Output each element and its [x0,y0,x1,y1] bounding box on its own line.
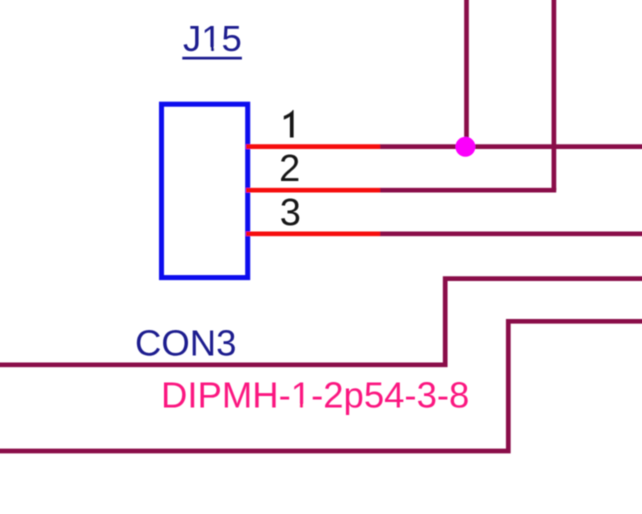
pin 1 number [284,110,294,138]
wire pin1 horizontal to right edge [380,144,642,149]
white patch removing serif foot of 1 in value label (left side) [293,404,300,408]
wire C stepped net (lower-left to upper-right) [0,279,642,365]
white patch removing serif foot of 1 in value label (right side) [303,404,310,408]
svg-text:CON3: CON3 [135,323,236,364]
underline of label J15 [182,57,242,60]
connector J15 body [162,104,248,277]
wire pin3 horizontal to right edge [380,231,642,236]
wire vertical B from top to pin2 net [552,0,557,190]
white patch removing serif foot of 1 in J15 (left side) [203,47,211,51]
wire D stepped net (bottom-left to right) [0,321,642,451]
svg-text:2: 2 [279,148,300,190]
white patch removing serif foot of 1 in J15 (right side) [214,47,220,51]
junction node dot [455,137,475,157]
wire pin2 horizontal to vertical B [380,188,556,193]
svg-text:3: 3 [280,192,301,234]
pin 3 stub [246,231,381,236]
wire vertical from top to junction [464,0,469,147]
svg-text:J15: J15 [183,18,242,59]
svg-text:DIPMH-1-2p54-3-8: DIPMH-1-2p54-3-8 [161,375,469,416]
pin 2 stub [246,188,381,193]
pin 1 stub [246,144,381,149]
